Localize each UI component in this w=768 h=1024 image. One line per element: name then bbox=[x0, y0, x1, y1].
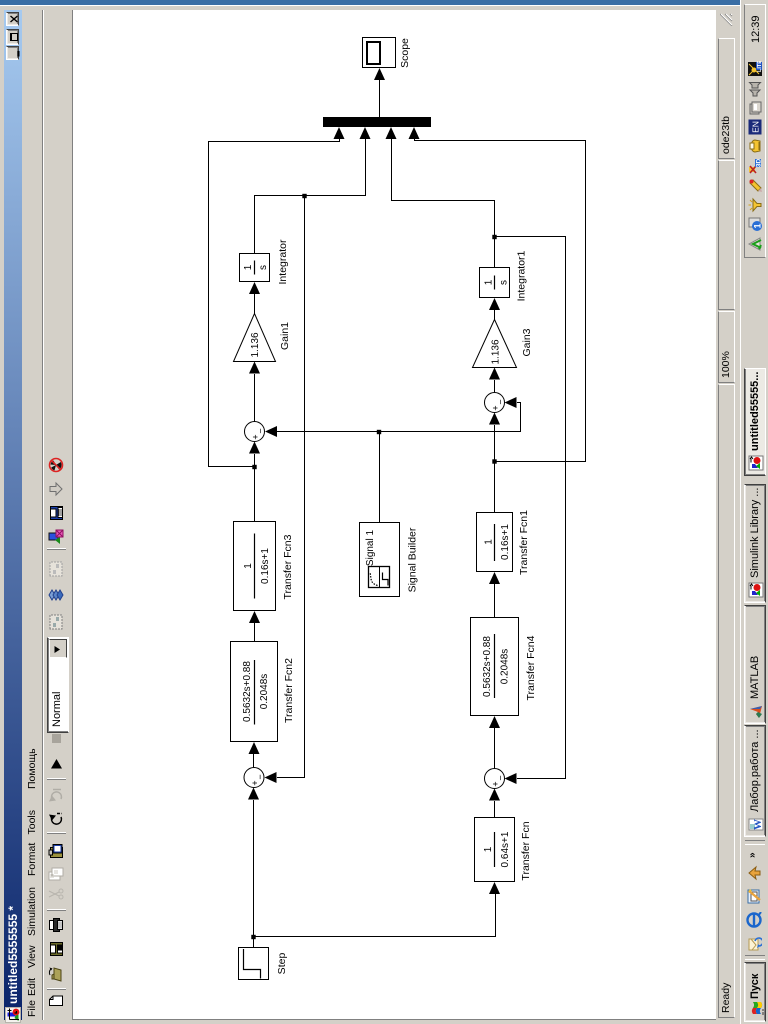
svg-text:−: − bbox=[255, 774, 265, 779]
svg-text:Transfer Fcn: Transfer Fcn bbox=[520, 821, 532, 880]
svg-text:1: 1 bbox=[243, 563, 254, 569]
svg-text:0.2048s: 0.2048s bbox=[500, 649, 511, 685]
svg-text:1: 1 bbox=[484, 539, 495, 545]
svg-text:Gain3: Gain3 bbox=[521, 328, 533, 356]
svg-text:+: + bbox=[251, 434, 261, 439]
svg-text:−: − bbox=[495, 775, 505, 780]
svg-text:−: − bbox=[255, 428, 265, 433]
svg-text:0.2048s: 0.2048s bbox=[259, 674, 270, 710]
svg-text:Transfer Fcn1: Transfer Fcn1 bbox=[518, 510, 530, 575]
svg-text:0.5632s+0.88: 0.5632s+0.88 bbox=[482, 636, 493, 697]
svg-text:W: W bbox=[752, 819, 764, 830]
svg-text:Step: Step bbox=[276, 953, 288, 975]
svg-text:Signal Builder: Signal Builder bbox=[407, 527, 419, 592]
svg-text:LITE: LITE bbox=[757, 61, 763, 72]
svg-text:Gain1: Gain1 bbox=[279, 322, 291, 350]
svg-text:1: 1 bbox=[484, 279, 495, 285]
svg-text:Transfer Fcn4: Transfer Fcn4 bbox=[525, 635, 537, 700]
svg-text:s: s bbox=[258, 265, 269, 270]
svg-text:1: 1 bbox=[243, 264, 254, 270]
svg-text:0.16s+1: 0.16s+1 bbox=[260, 548, 271, 584]
svg-text:1.136: 1.136 bbox=[250, 332, 261, 357]
svg-text:Scope: Scope bbox=[399, 38, 411, 68]
svg-text:Transfer Fcn3: Transfer Fcn3 bbox=[282, 534, 294, 599]
svg-text:s: s bbox=[499, 280, 510, 285]
svg-text:1: 1 bbox=[483, 846, 494, 852]
svg-text:+: + bbox=[250, 780, 260, 785]
svg-text:+: + bbox=[491, 781, 501, 786]
svg-text:3D: 3D bbox=[756, 159, 763, 168]
svg-text:0.16s+1: 0.16s+1 bbox=[500, 524, 511, 560]
svg-text:1.136: 1.136 bbox=[491, 339, 502, 364]
svg-text:+: + bbox=[491, 405, 501, 410]
svg-text:Integrator: Integrator bbox=[277, 239, 289, 284]
svg-text:EN: EN bbox=[751, 121, 761, 133]
svg-text:0.64s+1: 0.64s+1 bbox=[500, 831, 511, 867]
svg-text:0.5632s+0.88: 0.5632s+0.88 bbox=[242, 661, 253, 722]
svg-text:−: − bbox=[495, 399, 505, 404]
svg-text:Integrator1: Integrator1 bbox=[516, 250, 528, 301]
svg-text:Transfer Fcn2: Transfer Fcn2 bbox=[283, 658, 295, 723]
svg-text:Signal 1: Signal 1 bbox=[365, 529, 376, 566]
svg-text:1: 1 bbox=[753, 223, 763, 228]
